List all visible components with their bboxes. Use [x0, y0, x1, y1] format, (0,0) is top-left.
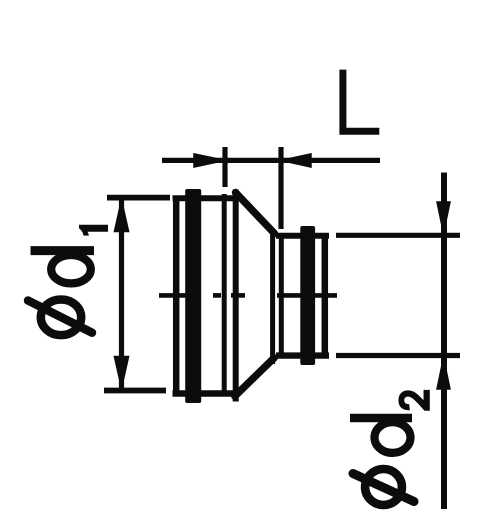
cone big-end edge	[233, 190, 239, 402]
label d1: letter d bowl	[51, 255, 91, 283]
label d1: diameter symbol circle	[41, 300, 81, 336]
extension tick left (L dim)	[222, 147, 227, 187]
right sealing band (gasket)	[300, 226, 315, 365]
junction line right (cone/small cylinder seam)	[279, 235, 284, 358]
label d2: diameter symbol slash	[353, 474, 414, 502]
arrowhead down (d2 dim)	[437, 202, 450, 233]
cone top slope	[236, 193, 275, 234]
dimension line L	[162, 158, 380, 163]
top bar (d1 dim)	[107, 195, 170, 201]
bottom bar (d1 dim)	[104, 388, 166, 394]
label d1: subscript 1	[79, 225, 108, 236]
left cylinder bottom line	[173, 390, 237, 396]
label d2: diameter symbol circle	[365, 469, 402, 505]
arrowhead right-pointing (L dim)	[194, 154, 225, 167]
dimension line d2 (vertical)	[441, 173, 447, 510]
dimension line d1 (vertical)	[119, 199, 124, 389]
small cylinder top line	[276, 233, 329, 239]
centerline dash 3	[231, 293, 245, 298]
arrowhead down (d1 dim)	[114, 357, 128, 389]
cone bottom slope	[235, 358, 274, 396]
small cylinder bottom line	[276, 352, 329, 358]
centerline dash 4	[277, 293, 301, 298]
bottom extension line (d2 dim)	[336, 353, 460, 358]
left cylinder left end edge	[173, 197, 180, 396]
label d1: diameter symbol slash	[28, 301, 92, 333]
label L	[343, 70, 379, 132]
cone small-end edge	[270, 230, 275, 365]
extension tick right (L dim)	[278, 147, 283, 229]
label d2: letter d stem	[350, 414, 412, 423]
centerline dash 1	[159, 293, 187, 298]
arrowhead up (d1 dim)	[114, 200, 128, 232]
label d1: letter d stem	[31, 246, 95, 255]
centerline dot 2	[213, 293, 221, 298]
junction line left (cylinder/cone seam)	[222, 194, 227, 394]
left sealing band (gasket)	[185, 189, 201, 403]
label d2: subscript 2	[398, 390, 429, 411]
small cylinder right end edge	[322, 235, 329, 356]
arrowhead left-pointing (L dim)	[281, 154, 311, 167]
top extension line (d2 dim)	[336, 233, 460, 238]
left cylinder top line	[173, 195, 237, 201]
label d2: letter d bowl	[375, 422, 411, 453]
centerline dash 5	[311, 293, 337, 298]
arrowhead up (d2 dim)	[437, 358, 450, 389]
